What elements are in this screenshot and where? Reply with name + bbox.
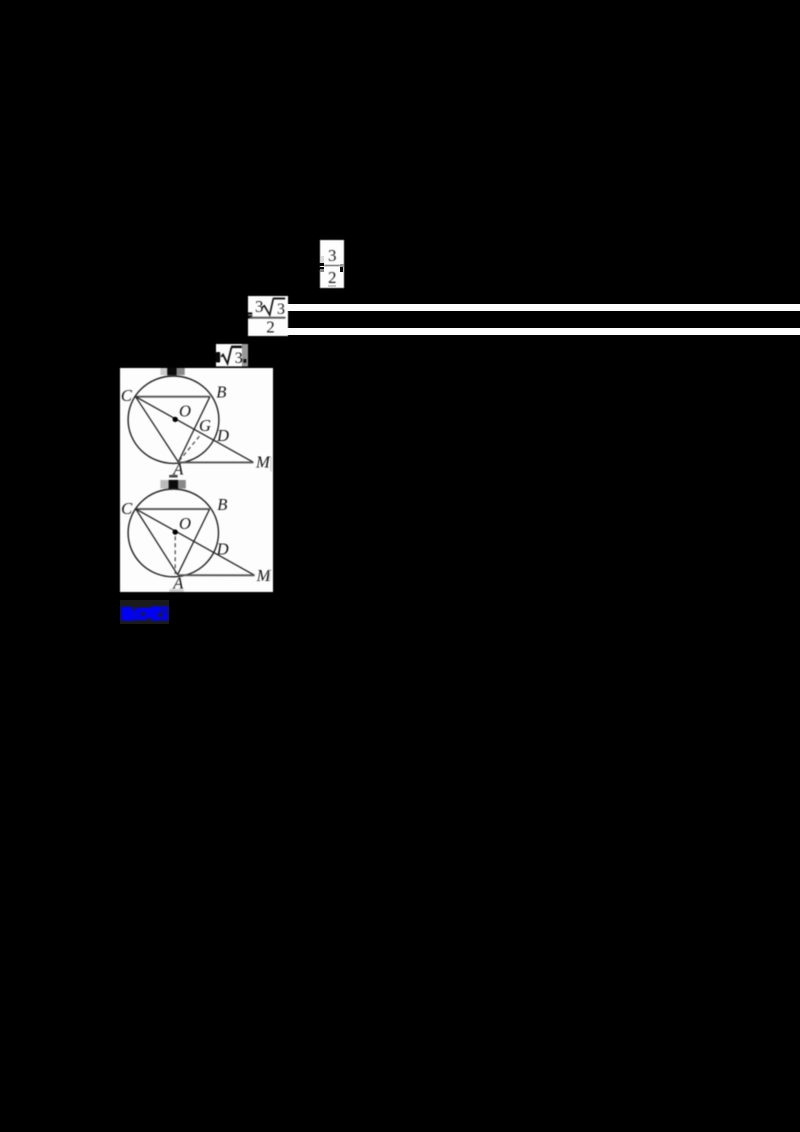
- fraction bar: [250, 316, 286, 318]
- black square right of 3/2 bar: [340, 267, 344, 272]
- smudge blob between diagrams: [160, 474, 185, 488]
- equals sign fragment left of 3/2: [319, 263, 324, 266]
- svg-text:G: G: [199, 415, 211, 434]
- secant line C to M through O (diagram 2): [135, 509, 254, 575]
- circle O (diagram 2): [128, 489, 218, 577]
- dashed segment O to A (diagram 2): [174, 536, 176, 574]
- gray right part: [242, 344, 248, 366]
- svg-text:C: C: [121, 498, 133, 517]
- fraction 3*sqrt(3)/2 white box: [248, 296, 288, 336]
- svg-text:M: M: [255, 452, 271, 471]
- chord CB (diagram 2): [135, 508, 209, 510]
- svg-text:D: D: [215, 539, 228, 558]
- svg-text:D: D: [216, 426, 229, 445]
- circle O (diagram 1): [128, 376, 219, 463]
- side CA (diagram 2): [135, 509, 177, 575]
- smudge blob above diagram 1: [160, 368, 184, 375]
- secant line C to M through O (diagram 1): [135, 396, 253, 462]
- svg-text:A: A: [172, 573, 184, 592]
- side BA (diagram 1): [178, 396, 210, 461]
- dashed segment A to G (diagram 1): [179, 433, 202, 461]
- chord CB (diagram 1): [135, 395, 209, 397]
- cursor bar after M (diagram 1): [270, 456, 271, 471]
- svg-text:B: B: [216, 382, 226, 401]
- svg-text:B: B: [217, 494, 227, 513]
- side CA (diagram 1): [135, 396, 178, 461]
- long white bar 2: [287, 328, 800, 335]
- equals sign fragment: [248, 312, 252, 314]
- comma after: [243, 359, 246, 363]
- dark box behind blue text: [120, 600, 169, 624]
- radical sign: [221, 347, 231, 363]
- base line A to M (diagram 1): [178, 461, 253, 463]
- sqrt(3) white box: [216, 344, 248, 367]
- blue blurred text: [120, 600, 170, 625]
- base line A to M (diagram 2): [177, 574, 254, 576]
- center dot O (diagram 1): [172, 416, 177, 421]
- svg-text:O: O: [179, 401, 191, 420]
- side BA (diagram 2): [177, 509, 209, 575]
- center dot O (diagram 2): [172, 529, 177, 534]
- clipped digit blob: [216, 352, 220, 363]
- smudge under label A (diagram 2): [169, 589, 184, 592]
- svg-text:3: 3: [255, 296, 264, 315]
- svg-text:3: 3: [234, 350, 242, 367]
- cursor bar after M (diagram 2): [268, 569, 269, 581]
- geometry diagrams white panel: [120, 368, 273, 592]
- svg-text:O: O: [179, 514, 191, 533]
- artifacts around 3/2 box: [321, 256, 324, 263]
- svg-text:C: C: [120, 385, 132, 404]
- radical sign: [262, 298, 273, 314]
- fraction 3/2 white box: [320, 240, 344, 288]
- svg-text:3: 3: [277, 301, 285, 318]
- panel background: [120, 368, 273, 592]
- long white bar 1: [287, 304, 800, 311]
- fraction bar of 3/2: [324, 265, 340, 267]
- svg-text:2: 2: [266, 317, 275, 335]
